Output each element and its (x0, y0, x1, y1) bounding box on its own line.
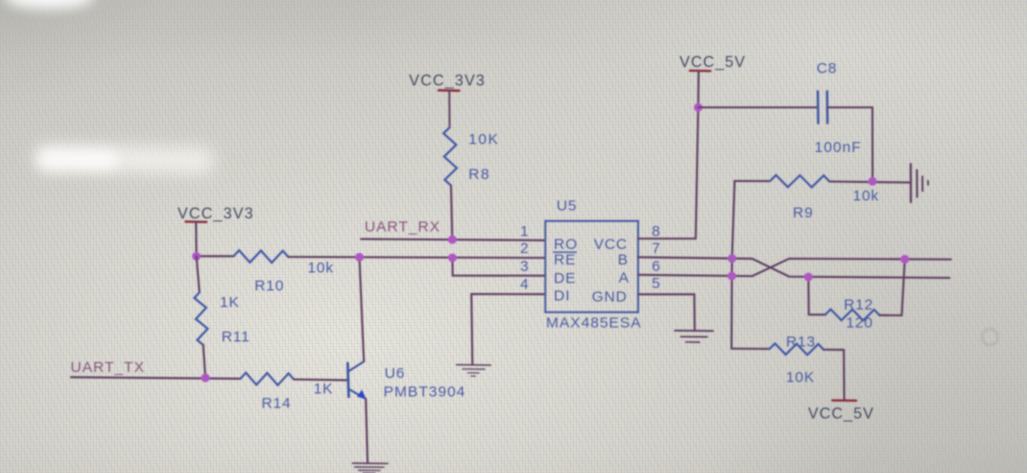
svg-text:10k: 10k (853, 188, 879, 205)
wire R12 left leg (808, 277, 825, 315)
pin number 1 (520, 223, 528, 240)
svg-text:6: 6 (652, 258, 661, 275)
svg-text:VCC: VCC (594, 236, 628, 253)
svg-text:A: A (619, 270, 630, 287)
wire C8 right to corner down (828, 107, 873, 181)
wire R9 right to ground (830, 182, 910, 183)
node junction bus upper (728, 254, 737, 263)
svg-text:U5: U5 (557, 198, 578, 215)
wire R14 to base of Q (294, 378, 348, 381)
wire pin 5 GND (638, 294, 695, 330)
svg-text:4: 4 (520, 276, 528, 293)
pin number 7 (652, 240, 661, 257)
svg-text:R8: R8 (469, 166, 491, 183)
svg-text:100nF: 100nF (815, 139, 862, 156)
wire pin2-pin3 jog (452, 258, 545, 276)
pin name DE (554, 270, 576, 287)
resistor R14 1K (241, 373, 334, 412)
pin number 2 (520, 240, 528, 257)
svg-text:B: B (618, 251, 629, 268)
wire emitter down (366, 399, 368, 464)
svg-text:3: 3 (520, 258, 528, 275)
wire R9 node down through bus to R13 (732, 181, 735, 349)
svg-text:120: 120 (846, 314, 873, 331)
wire R12 right leg (880, 259, 905, 315)
svg-text:RE: RE (554, 251, 576, 268)
svg-text:1K: 1K (314, 380, 334, 397)
svg-text:UART_RX: UART_RX (365, 218, 441, 235)
svg-text:GND: GND (592, 288, 627, 305)
resistor R12 120 (825, 297, 879, 332)
capacitor C8 100nF (815, 60, 862, 156)
node junction VCC_3V3/R10/R11 (192, 252, 201, 261)
svg-text:7: 7 (652, 240, 661, 257)
svg-text:DE: DE (554, 270, 576, 287)
svg-text:R13: R13 (786, 334, 816, 351)
svg-text:VCC_3V3: VCC_3V3 (178, 206, 255, 223)
pin number 5 (652, 275, 661, 292)
pin name GND (592, 288, 627, 305)
svg-text:DI: DI (554, 287, 570, 304)
svg-text:1: 1 (520, 223, 528, 240)
node junction collector/pin2 line (355, 253, 364, 262)
resistor R8 10K (444, 128, 500, 186)
svg-text:R14: R14 (262, 395, 292, 412)
pin name VCC (594, 236, 628, 253)
wire R11 bottom lead (203, 345, 205, 378)
svg-text:RO: RO (554, 236, 578, 253)
wire collector to pin2 node (359, 257, 364, 361)
wire pin 6 A with crossover to upper line (638, 259, 951, 277)
pin number 6 (652, 258, 661, 275)
svg-text:U6: U6 (385, 365, 406, 382)
pin number 4 (520, 276, 528, 293)
op IC U5 MAX485ESA box (545, 198, 641, 332)
pin name B (618, 251, 629, 268)
net label UART_RX (365, 218, 441, 235)
transistor U6 PMBT3904 (348, 362, 466, 401)
wire pin 4 DI to ground (471, 294, 545, 365)
wire VCC_5V to C8 (698, 106, 817, 108)
power symbol VCC_3V3 (top) (409, 73, 486, 128)
wire UART_TX (71, 377, 241, 379)
ground (pin 5) (675, 331, 713, 343)
svg-text:R10: R10 (255, 277, 285, 294)
svg-text:MAX485ESA: MAX485ESA (546, 315, 642, 332)
svg-text:10k: 10k (308, 260, 334, 277)
wire node to R10 (196, 255, 233, 257)
pin number 3 (520, 258, 528, 275)
svg-text:1K: 1K (220, 294, 240, 311)
resistor R10 10k (234, 250, 334, 294)
wire R10 to pin 2 of U5 (288, 257, 545, 258)
svg-text:VCC_5V: VCC_5V (680, 54, 746, 71)
pin name RE (active low) (554, 251, 577, 268)
node junction on UART_RX at R8 (448, 235, 457, 244)
wire pin 7 B with crossover to lower line (638, 257, 950, 278)
wire R13 left lead (732, 348, 770, 350)
pin name A (619, 270, 630, 287)
svg-text:R9: R9 (793, 205, 814, 222)
svg-text:10K: 10K (786, 369, 815, 386)
svg-text:R12: R12 (844, 297, 874, 314)
wire R11 top lead (196, 256, 199, 292)
pin number 8 (652, 223, 661, 240)
ground (DI pin 4) (457, 365, 491, 376)
svg-text:5: 5 (652, 275, 661, 292)
svg-text:VCC_5V: VCC_5V (808, 405, 874, 422)
ground (emitter of U6) (353, 463, 388, 473)
power symbol VCC_3V3 (left) (178, 206, 255, 257)
node junction R12 right on upper line (901, 255, 910, 264)
node junction VCC_5V/C8 (694, 103, 703, 112)
node junction pin2/pin3 (448, 253, 457, 262)
svg-text:UART_TX: UART_TX (71, 359, 145, 376)
svg-text:R11: R11 (222, 328, 251, 345)
svg-text:2: 2 (520, 240, 528, 257)
svg-text:10K: 10K (469, 131, 500, 148)
ground (right, rotated) (911, 164, 928, 202)
pin name DI (554, 287, 570, 304)
node junction C8/R9 (868, 177, 877, 186)
resistor R13 10K (770, 334, 824, 387)
wire R13 right to VCC_5V (824, 350, 845, 401)
resistor R11 1K (194, 292, 250, 345)
pin name RO (554, 236, 578, 253)
resistor R9 10k (770, 175, 879, 221)
svg-text:PMBT3904: PMBT3904 (384, 384, 466, 401)
power symbol VCC_5V (bottom) (808, 400, 874, 422)
node junction bus lower (728, 272, 737, 281)
net label UART_TX (71, 359, 145, 376)
wire UART_RX / pin 1 (361, 239, 545, 240)
wire R8 bottom to UART_RX node (451, 186, 452, 240)
power symbol VCC_5V (top) (680, 54, 746, 239)
svg-text:VCC_3V3: VCC_3V3 (409, 73, 486, 90)
wire pin 8 VCC (638, 238, 696, 240)
wire R9 left corner (735, 180, 770, 182)
node junction UART_TX/R11/R14 (201, 374, 210, 383)
node junction R12 left on lower line (804, 273, 813, 282)
svg-text:C8: C8 (817, 60, 838, 77)
